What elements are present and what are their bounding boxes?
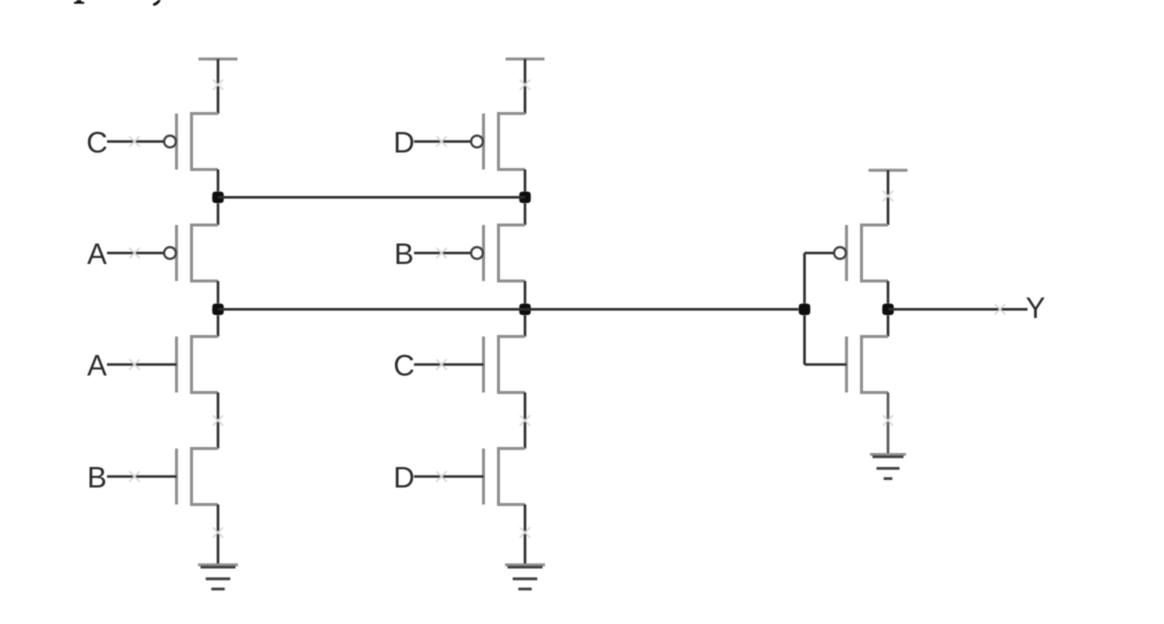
pin marker on D wire xyxy=(436,471,446,481)
svg-text:C: C xyxy=(393,350,414,383)
svg-text:Y: Y xyxy=(1026,292,1046,325)
PMOS transistor middle branch top PMOS xyxy=(499,114,526,170)
ground symbol (left branch) xyxy=(198,563,238,566)
gate input wire C to left branch top PMOS xyxy=(107,140,164,143)
output node dot at left branch xyxy=(212,303,224,315)
pin marker on inverter ground wire xyxy=(883,415,893,425)
pin marker on A wire xyxy=(129,359,139,369)
cropped text fragment (serif letter foot) xyxy=(74,0,84,4)
cropped text fragment (comma/paren tail) xyxy=(154,0,159,4)
NMOS transistor left branch upper NMOS xyxy=(192,337,219,393)
pin marker on VDD stem (inverter) xyxy=(883,191,893,201)
wire between PMOS stack (middle branch) xyxy=(524,170,527,226)
wire output Y xyxy=(888,308,1028,311)
svg-text:A: A xyxy=(87,238,107,271)
pin marker between NMOS stack (middle branch) xyxy=(520,415,530,425)
svg-text:B: B xyxy=(87,462,107,495)
PMOS transistor middle branch lower PMOS xyxy=(499,225,526,281)
gate input wire A to left branch lower PMOS xyxy=(107,252,164,255)
VDD power symbol (middle branch) xyxy=(506,58,545,61)
svg-text:D: D xyxy=(393,462,414,495)
wire between NMOS stack (left branch) xyxy=(217,393,220,449)
pin marker on VDD stem (left branch) xyxy=(213,80,223,90)
wire inverter PMOS drain to output xyxy=(887,281,890,309)
wire net N1 between branches xyxy=(218,196,525,199)
ground symbol (middle branch) xyxy=(505,563,545,566)
NMOS transistor left branch lower NMOS xyxy=(192,449,219,505)
wire VDD stem (middle branch) xyxy=(524,59,527,114)
pin marker on Y wire xyxy=(995,304,1005,314)
pin marker on B wire xyxy=(436,248,446,258)
pin marker on VDD stem (middle branch) xyxy=(520,80,530,90)
pin marker on C wire xyxy=(129,136,139,146)
wire NMOS to ground (left branch) xyxy=(217,505,220,566)
wire inverter input to PMOS gate xyxy=(805,252,834,255)
node dot N1 at middle branch xyxy=(519,191,531,203)
wire inverter output to NMOS drain xyxy=(887,309,890,336)
svg-text:C: C xyxy=(86,127,107,160)
gate input wire D to middle branch top PMOS xyxy=(414,140,471,143)
wire between NMOS stack (middle branch) xyxy=(524,393,527,449)
wire NMOS to ground (middle branch) xyxy=(524,505,527,566)
gate input wire A to left branch upper NMOS xyxy=(107,363,177,366)
wire output net to inverter input xyxy=(218,308,805,311)
wire inverter input to NMOS gate xyxy=(805,363,847,366)
NMOS transistor middle branch lower NMOS xyxy=(499,449,526,505)
ground symbol (inverter) xyxy=(870,453,906,456)
inverter output node dot xyxy=(882,303,894,315)
pin marker on ground wire (left branch) xyxy=(213,527,223,537)
PMOS transistor left branch top PMOS xyxy=(192,114,219,170)
wire inverter input riser xyxy=(803,253,806,365)
output node dot at middle branch xyxy=(519,303,531,315)
NMOS transistor middle branch upper NMOS xyxy=(499,337,526,393)
pin marker on C wire xyxy=(436,359,446,369)
wire VDD stem (left branch) xyxy=(217,59,220,114)
NMOS transistor inverter NMOS U4 xyxy=(862,337,889,393)
pin marker on ground wire (middle branch) xyxy=(520,527,530,537)
VDD power symbol (left branch) xyxy=(199,58,238,61)
wire inverter NMOS to ground xyxy=(887,393,890,456)
pin marker between NMOS stack (left branch) xyxy=(213,415,223,425)
svg-text:B: B xyxy=(394,238,414,271)
wire PMOS to NMOS (middle branch) xyxy=(524,281,527,337)
wire between PMOS stack (left branch) xyxy=(217,170,220,226)
wire PMOS to NMOS (left branch) xyxy=(217,281,220,337)
gate input wire C to middle branch upper NMOS xyxy=(414,363,484,366)
svg-text:A: A xyxy=(87,350,107,383)
gate input wire B to middle branch lower PMOS xyxy=(414,252,471,255)
inverter input node dot xyxy=(798,303,810,315)
pin marker on D wire xyxy=(436,136,446,146)
gate input wire B to left branch lower NMOS xyxy=(107,475,177,478)
node dot N1 at left branch xyxy=(212,191,224,203)
wire VDD stem (inverter) xyxy=(887,170,890,225)
pin marker on B wire xyxy=(129,471,139,481)
VDD power symbol (inverter) xyxy=(869,169,908,172)
gate input wire D to middle branch lower NMOS xyxy=(414,475,484,478)
PMOS transistor left branch lower PMOS xyxy=(192,225,219,281)
pin marker on A wire xyxy=(129,248,139,258)
svg-text:D: D xyxy=(393,127,414,160)
PMOS transistor inverter PMOS U3 xyxy=(862,225,889,281)
